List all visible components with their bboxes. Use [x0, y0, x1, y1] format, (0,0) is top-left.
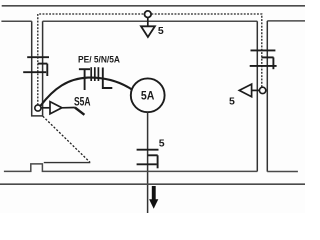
junction box: left small circle	[35, 105, 41, 111]
svg-text:5: 5	[229, 96, 235, 108]
svg-text:PE/ 5/N/5A: PE/ 5/N/5A	[78, 54, 120, 65]
wall: bottom outer line	[0, 183, 305, 185]
wall: bottom inner wall with box bump	[4, 164, 298, 172]
svg-text:S5A: S5A	[74, 95, 91, 109]
node: left riser duct rectangle	[32, 21, 43, 116]
svg-text:5: 5	[159, 137, 165, 149]
ceiling outlet: down triangle symbol	[141, 26, 155, 37]
switch right: triangle symbol	[239, 84, 259, 97]
wire: top inner wall right segment	[267, 20, 305, 22]
wire: drop line from lamp to feed	[147, 112, 149, 213]
wire: dashed diagonal run to door	[43, 116, 90, 162]
ceiling outlet: stem to triangle	[147, 18, 149, 27]
cable marks: feed line conductor marks	[137, 150, 159, 169]
cable marks: left riser conductor marks	[23, 57, 49, 76]
cable marks: N conductor L mark	[103, 68, 113, 89]
wire: top inner wall left segment	[1, 20, 31, 22]
wire: horizontal run above bottom wall	[44, 162, 91, 164]
cable marks: three phase strokes	[91, 67, 98, 81]
wire: right partition wall left line	[256, 21, 258, 171]
supply feed bold arrow	[149, 186, 158, 209]
svg-text:5A: 5A	[141, 91, 155, 103]
wire: top inner wall middle segment	[43, 20, 258, 22]
wire: right partition wall right line	[266, 21, 268, 172]
cable marks: PE conductor T mark	[79, 69, 90, 90]
wire: top outer wall line	[2, 5, 305, 7]
switch S5A: actuator lever stroke	[75, 108, 85, 115]
switch S5A: triangle symbol	[41, 102, 75, 114]
svg-text:5: 5	[158, 25, 164, 37]
wire: dashed cable run horizontal	[38, 14, 262, 105]
lamp group circle 5A	[131, 78, 165, 112]
junction box: right small circle	[259, 87, 265, 93]
cable marks: right partition conductor marks	[250, 50, 277, 69]
ceiling outlet: top circle on dashed run	[145, 11, 152, 18]
wire: arc from switch box to lamp 5A	[41, 78, 132, 106]
